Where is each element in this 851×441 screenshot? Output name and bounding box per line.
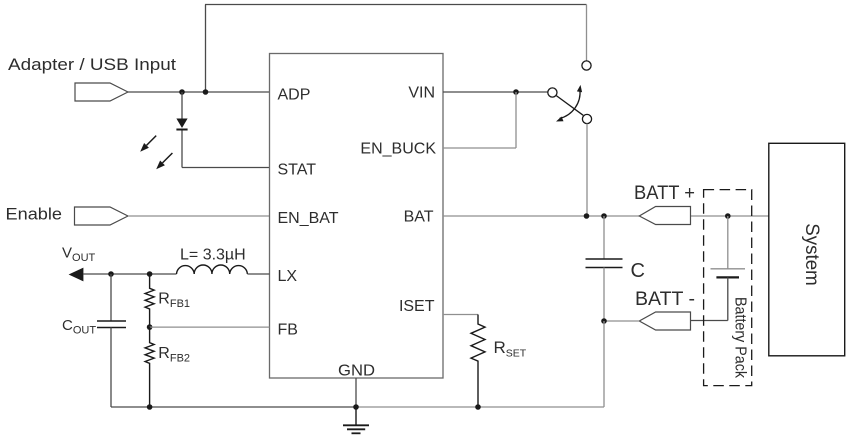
svg-text:RFB2: RFB2 xyxy=(158,345,190,365)
node VIN junction xyxy=(513,89,519,95)
node BAT-switch junction xyxy=(584,213,590,219)
svg-text:RFB1: RFB1 xyxy=(158,291,190,311)
resistor RSET xyxy=(471,315,485,408)
svg-text:L= 3.3µH: L= 3.3µH xyxy=(180,247,246,264)
svg-text:Battery Pack: Battery Pack xyxy=(732,297,749,378)
svg-text:STAT: STAT xyxy=(278,162,317,179)
wire switch bottom to BAT xyxy=(586,124,588,216)
LED emission arrow 2 xyxy=(163,153,173,163)
svg-text:EN_BAT: EN_BAT xyxy=(278,210,339,227)
svg-text:GND: GND xyxy=(338,363,375,380)
svg-text:VIN: VIN xyxy=(408,85,435,102)
wire bottom rail right xyxy=(356,406,604,408)
svg-text:BATT -: BATT - xyxy=(635,289,695,310)
inductor L1 xyxy=(177,265,248,274)
wire bottom rail left xyxy=(111,406,356,408)
wire EN_BUCK xyxy=(443,92,516,148)
switch S1 pole contact xyxy=(548,88,557,97)
svg-text:COUT: COUT xyxy=(62,317,96,337)
switch S1 lever xyxy=(556,96,583,116)
arrow VOUT output xyxy=(69,268,84,282)
svg-text:ADP: ADP xyxy=(278,87,311,104)
wire ISET xyxy=(443,314,478,316)
svg-text:C: C xyxy=(631,260,645,282)
wire LX right segment xyxy=(247,273,269,275)
connector BATT- xyxy=(639,312,690,330)
svg-text:BAT: BAT xyxy=(404,209,434,226)
op-amp U1 main IC body xyxy=(270,54,444,379)
battery BT1 xyxy=(711,268,746,270)
wire BAT xyxy=(443,215,639,217)
node BAT-battery junction xyxy=(725,213,731,219)
capacitor C xyxy=(603,216,605,259)
node RSET bottom junction xyxy=(475,404,481,410)
wire VIN xyxy=(443,91,548,93)
node ADP junction 2 xyxy=(203,89,209,95)
resistor RFB2 xyxy=(145,327,154,407)
resistor RFB1 xyxy=(145,274,154,327)
System box xyxy=(769,143,845,355)
svg-text:ISET: ISET xyxy=(399,298,435,315)
svg-text:System: System xyxy=(801,223,822,286)
wire STAT xyxy=(182,167,270,169)
node ADP junction 1 xyxy=(179,89,185,95)
node RFB2 bottom junction xyxy=(147,404,153,410)
wire battery negative xyxy=(691,277,728,320)
connector BATT+ xyxy=(639,207,690,225)
node COUT junction xyxy=(108,271,114,277)
switch S1 toggle arc xyxy=(560,89,581,118)
switch S1 bottom throw contact xyxy=(582,114,591,123)
svg-text:VOUT: VOUT xyxy=(62,245,96,265)
wire ADP input xyxy=(128,91,270,93)
svg-text:EN_BUCK: EN_BUCK xyxy=(360,141,436,158)
svg-text:BATT +: BATT + xyxy=(634,183,695,204)
diode D1 (status LED) xyxy=(176,119,187,129)
node RFB1 junction xyxy=(147,271,153,277)
wire BATT- bottom drop xyxy=(603,321,605,407)
wire EN_BAT xyxy=(128,215,270,217)
wire FB xyxy=(150,326,270,328)
wire top-left vertical drop to ADP node xyxy=(205,5,207,93)
svg-text:LX: LX xyxy=(278,268,298,285)
wire battery positive xyxy=(727,216,729,269)
svg-text:Enable: Enable xyxy=(6,206,63,224)
wire LED cathode to STAT xyxy=(181,131,183,168)
wire top-right vertical to switch top contact xyxy=(586,5,588,61)
battery pack dashed box xyxy=(704,190,752,386)
wire LED anode xyxy=(181,92,183,119)
node GND junction xyxy=(353,404,359,410)
svg-text:RSET: RSET xyxy=(494,338,527,360)
ground xyxy=(355,407,357,425)
switch S1 top throw contact xyxy=(582,61,591,70)
node FB junction xyxy=(147,324,153,330)
connector Adapter/USB input xyxy=(75,83,128,101)
LED emission arrow 1 xyxy=(147,136,157,146)
wire GND pin xyxy=(355,378,357,407)
wire LX left segment xyxy=(83,273,176,275)
svg-text:Adapter / USB Input: Adapter / USB Input xyxy=(8,56,176,74)
wire BATT- left xyxy=(604,320,639,322)
svg-text:FB: FB xyxy=(278,322,298,339)
node BAT-cap junction xyxy=(601,213,607,219)
wire top rail xyxy=(205,4,587,6)
connector Enable xyxy=(75,207,129,225)
node BATT- junction xyxy=(601,318,607,324)
